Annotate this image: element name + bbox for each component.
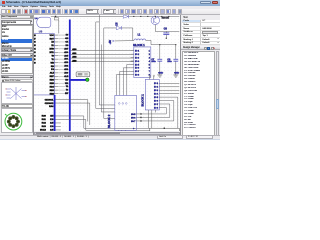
svg-text:I/O 1: I/O 1 <box>154 83 158 85</box>
svg-text:I/O 8: I/O 8 <box>154 107 158 109</box>
svg-text:I/O 1: I/O 1 <box>135 50 139 52</box>
svg-text:I/O 5: I/O 5 <box>154 97 158 99</box>
svg-text:I/O 2: I/O 2 <box>154 86 158 88</box>
svg-text:I/O 8: I/O 8 <box>135 74 139 76</box>
svg-text:I/O 7: I/O 7 <box>131 120 135 122</box>
svg-text:I/O 7: I/O 7 <box>154 103 158 105</box>
svg-text:7: 7 <box>149 71 150 73</box>
svg-text:T1: T1 <box>66 86 68 88</box>
svg-text:AD2: AD2 <box>64 64 68 67</box>
svg-text:AD3: AD3 <box>64 61 68 64</box>
svg-text:2: 2 <box>149 54 150 56</box>
svg-text:C2/OSC2: C2/OSC2 <box>45 102 54 104</box>
svg-text:1: 1 <box>149 50 150 52</box>
svg-text:I/O 3: I/O 3 <box>154 90 158 92</box>
svg-text:R16 10k: R16 10k <box>162 17 170 19</box>
svg-text:5: 5 <box>149 64 150 66</box>
svg-text:ALE: ALE <box>50 71 55 74</box>
svg-text:T0: T0 <box>66 89 68 91</box>
svg-text:AD5: AD5 <box>64 54 68 57</box>
svg-text:U5: U5 <box>39 29 43 33</box>
svg-text:AD0: AD0 <box>64 71 68 74</box>
svg-text:I/O 7: I/O 7 <box>135 71 139 73</box>
svg-text:I/O 6: I/O 6 <box>135 67 139 69</box>
svg-text:I/O 5: I/O 5 <box>135 64 139 66</box>
svg-text:GND: GND <box>158 72 163 74</box>
svg-text:AD7: AD7 <box>64 47 68 50</box>
svg-text:125: 125 <box>50 122 53 124</box>
svg-text:I/O 5: I/O 5 <box>131 113 135 115</box>
svg-text:115: 115 <box>50 115 53 117</box>
svg-text:WR: WR <box>51 62 55 64</box>
svg-text:C1/OSC1: C1/OSC1 <box>45 99 54 101</box>
svg-text:AD6: AD6 <box>64 50 68 53</box>
svg-text:GND: GND <box>174 72 179 74</box>
svg-text:120: 120 <box>50 119 53 121</box>
svg-text:3: 3 <box>149 57 150 59</box>
svg-text:I/O 6: I/O 6 <box>154 100 158 102</box>
svg-text:I/O 3: I/O 3 <box>135 57 139 59</box>
svg-text:+5V: +5V <box>109 39 112 44</box>
svg-text:130: 130 <box>50 126 53 128</box>
svg-text:VCC: VCC <box>50 34 55 36</box>
svg-text:I/O 2: I/O 2 <box>135 54 139 56</box>
svg-text:BLOCK 2: BLOCK 2 <box>107 114 111 128</box>
svg-text:6: 6 <box>149 67 150 69</box>
svg-text:BLOCK 1: BLOCK 1 <box>141 93 145 106</box>
svg-text:AD1: AD1 <box>64 68 68 71</box>
svg-text:I/O 6: I/O 6 <box>131 117 135 119</box>
